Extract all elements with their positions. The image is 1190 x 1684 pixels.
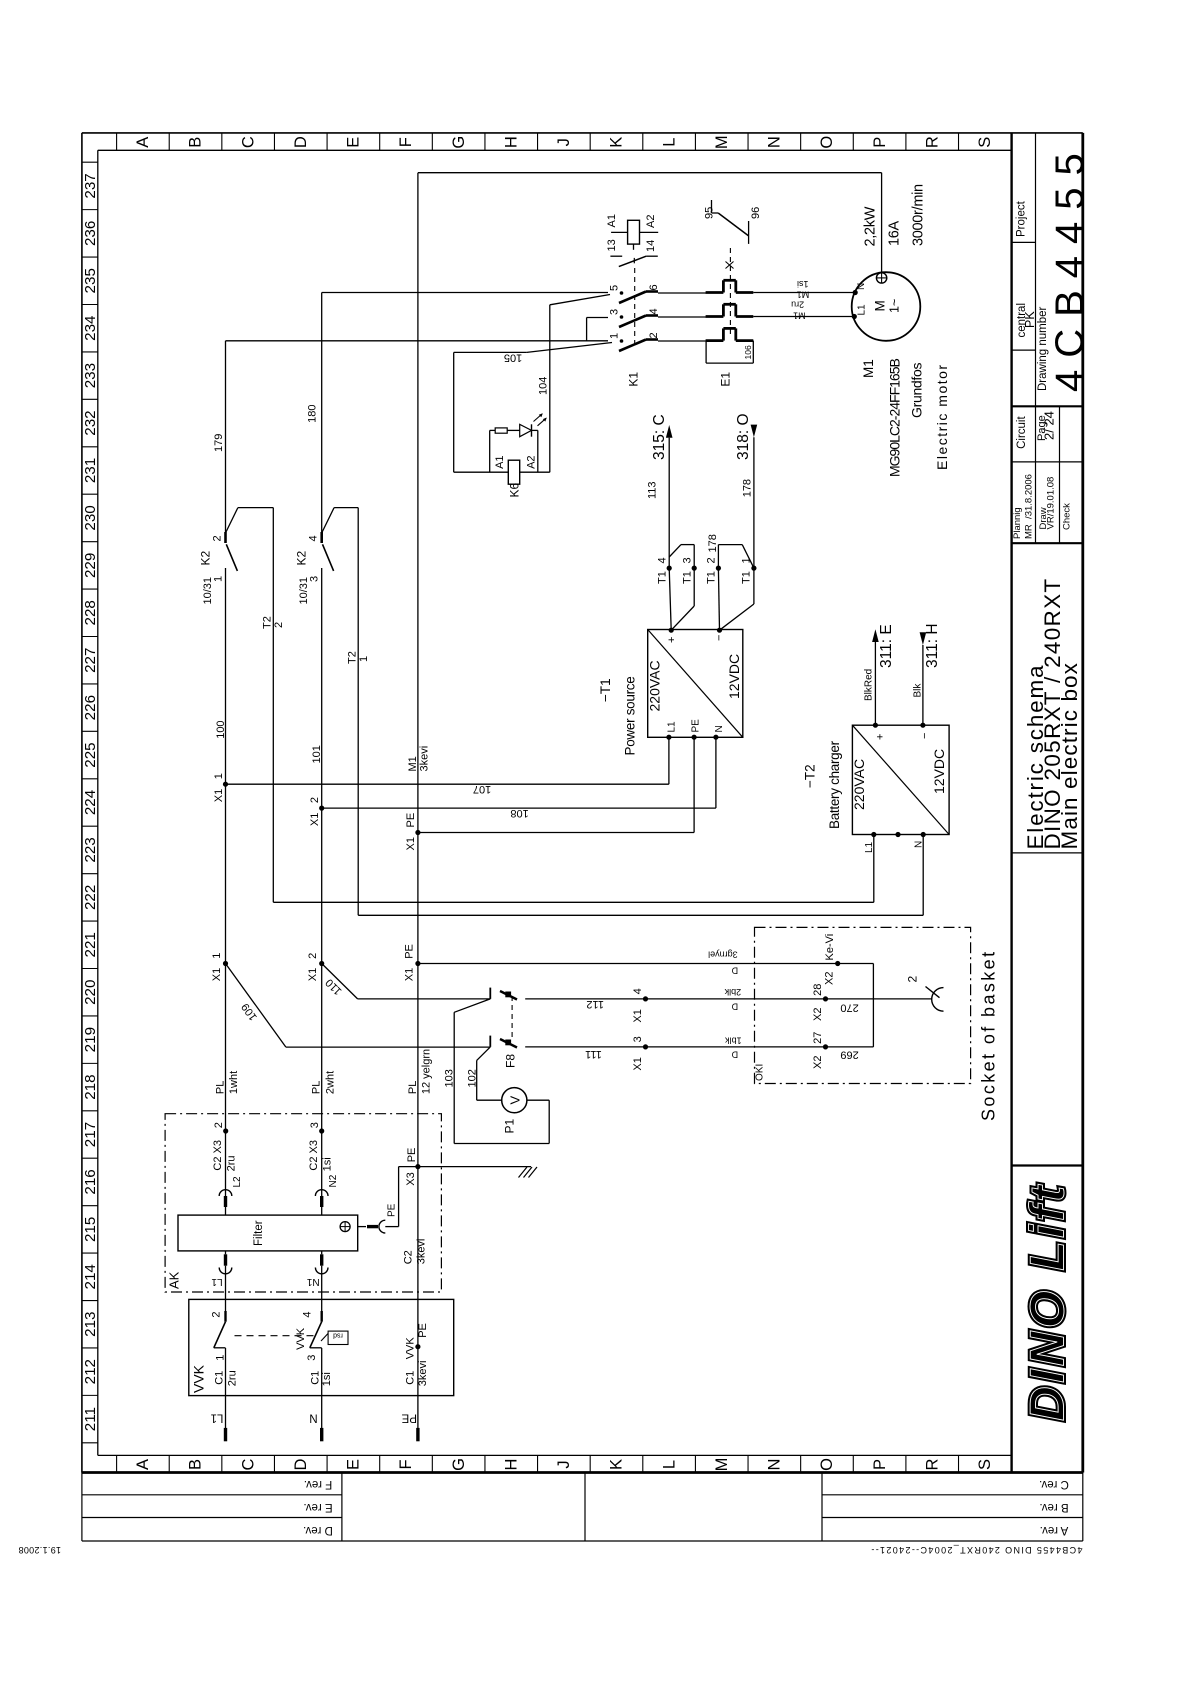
coil K1 <box>628 220 640 244</box>
svg-text:M: M <box>713 1458 731 1472</box>
earth (chassis) symbol <box>519 1167 528 1178</box>
switch contact VVK pole N <box>321 1311 323 1322</box>
svg-text:12VDC: 12VDC <box>931 749 947 794</box>
svg-text:Plannig: Plannig <box>1012 507 1023 539</box>
svg-text:VR/19.01.08: VR/19.01.08 <box>1045 477 1056 530</box>
svg-text:1: 1 <box>213 576 225 582</box>
svg-text:T1: T1 <box>741 571 753 584</box>
svg-text:2: 2 <box>706 557 718 563</box>
svg-text:Project: Project <box>1016 200 1028 237</box>
svg-text:D: D <box>292 136 310 148</box>
svg-text:L: L <box>660 138 678 147</box>
svg-text:K6: K6 <box>508 482 522 497</box>
svg-text:O: O <box>818 136 836 149</box>
wire 103 fuse-a to P1 loop <box>454 999 490 1012</box>
svg-text:T2: T2 <box>347 651 359 664</box>
earth symbol on motor <box>876 273 886 283</box>
svg-text:C rev.: C rev. <box>1039 1478 1069 1490</box>
svg-text:PK: PK <box>1023 311 1037 328</box>
svg-text:2: 2 <box>906 976 920 983</box>
svg-text:A: A <box>134 137 152 148</box>
terminal X2:28 <box>823 996 828 1001</box>
terminal X1:1 upper <box>223 782 228 787</box>
svg-text:100: 100 <box>215 720 227 738</box>
wire 104 vertical <box>549 305 551 472</box>
svg-text:235: 235 <box>82 268 99 293</box>
svg-text:T2: T2 <box>262 616 274 629</box>
wire filter PE to X3:PE <box>385 1226 398 1228</box>
svg-text:F: F <box>397 137 415 147</box>
svg-text:L: L <box>660 1460 678 1469</box>
T1 PE node <box>692 735 697 740</box>
svg-text:16A: 16A <box>887 220 903 246</box>
svg-text:PE: PE <box>405 813 417 828</box>
battery charger T2 <box>852 725 949 834</box>
svg-text:1: 1 <box>213 773 225 779</box>
svg-text:X1: X1 <box>309 813 321 826</box>
terminal T1:4 <box>667 566 672 571</box>
power source T1 <box>648 630 743 738</box>
motor M1 <box>852 272 921 341</box>
plug contact N2 <box>315 1190 328 1196</box>
svg-text:218: 218 <box>82 1074 99 1099</box>
svg-text:1: 1 <box>358 656 370 662</box>
svg-text:212: 212 <box>82 1359 99 1384</box>
svg-text:K2: K2 <box>199 550 213 565</box>
terminal X2 Ke-Vi <box>835 961 840 966</box>
wire X1PE to T1 <box>418 832 694 834</box>
svg-text:PE: PE <box>406 1148 418 1163</box>
terminal X1:1 lower <box>223 961 228 966</box>
svg-text:L1: L1 <box>667 721 678 733</box>
svg-text:220VAC: 220VAC <box>647 660 663 711</box>
LED arrows <box>534 414 543 422</box>
switch contact K2 pole B (N) <box>320 532 323 543</box>
svg-text:2ru: 2ru <box>791 299 804 309</box>
svg-text:Filter: Filter <box>253 1220 265 1246</box>
fuse switch F8 pole a (wire 110->112) <box>489 988 491 999</box>
svg-text:D: D <box>292 1458 310 1470</box>
svg-text:102: 102 <box>467 1069 479 1087</box>
svg-text:B: B <box>187 1459 205 1470</box>
svg-text:219: 219 <box>82 1027 99 1052</box>
terminal T1:2 <box>716 566 721 571</box>
svg-text:2wht: 2wht <box>324 1071 336 1094</box>
svg-text:Ke-Vi: Ke-Vi <box>824 934 836 961</box>
T2 wires down to T2-wires <box>873 835 875 903</box>
wire 104 from K1 pole5 to K6 <box>550 295 610 305</box>
wire T2-1 from K2b to battery charger <box>357 508 359 916</box>
wire 110 <box>322 964 358 999</box>
wire N end tick <box>320 1428 323 1441</box>
T1 + to terminals T1:4 T1:3 <box>669 568 671 630</box>
svg-text:A: A <box>134 1459 152 1470</box>
svg-text:231: 231 <box>82 458 99 483</box>
svg-text:A rev.: A rev. <box>1040 1524 1069 1536</box>
svg-text:Battery charger: Battery charger <box>827 740 842 829</box>
wire 105 from K1 pole1 to K6 <box>527 343 612 353</box>
svg-text:PE: PE <box>403 944 415 959</box>
svg-text:2,2kW: 2,2kW <box>863 206 879 246</box>
svg-text:237: 237 <box>82 173 99 198</box>
svg-text:104: 104 <box>538 377 550 395</box>
svg-text:3kevi: 3kevi <box>416 1239 428 1265</box>
svg-text:Socket of basket: Socket of basket <box>979 950 999 1121</box>
svg-text:R: R <box>923 136 941 148</box>
K1 dashed link <box>634 268 636 345</box>
enclosure OKI (socket of basket) <box>755 927 971 1083</box>
T1 + node <box>669 628 674 633</box>
contact K1 pole 1-2 <box>620 339 624 343</box>
svg-text:+: + <box>875 734 887 740</box>
fuse switch F8 pole b (wire 109->111) <box>489 1036 491 1047</box>
svg-text:X1: X1 <box>632 1009 644 1022</box>
svg-text:L1: L1 <box>211 1412 224 1424</box>
wire L1 rail upper (179) <box>225 341 227 532</box>
svg-text:2blk: 2blk <box>724 987 741 997</box>
svg-text:D: D <box>731 966 738 976</box>
sheet outer frame <box>82 132 1083 134</box>
svg-text:PE: PE <box>401 1412 417 1424</box>
wire 109 <box>226 964 286 1048</box>
svg-text:G: G <box>450 1458 468 1471</box>
off-page arrow 311:E <box>874 642 876 725</box>
voltmeter P1 <box>502 1088 527 1113</box>
svg-text:1si: 1si <box>322 1157 334 1171</box>
wires E1 to motor <box>753 292 855 294</box>
svg-text:J: J <box>555 138 573 146</box>
svg-text:2/ 24: 2/ 24 <box>1042 411 1057 440</box>
svg-text:VVK: VVK <box>191 1364 207 1393</box>
svg-text:1si: 1si <box>321 1372 333 1386</box>
svg-text:A2: A2 <box>526 455 538 468</box>
off-page arrow 311:H <box>922 645 924 725</box>
inner drawing frame <box>98 149 1012 151</box>
terminal X1:2 lower <box>319 961 324 966</box>
svg-text:2: 2 <box>273 622 285 628</box>
svg-text:4: 4 <box>632 988 644 994</box>
svg-text:1~: 1~ <box>888 299 902 313</box>
aux contact K1 13-14 <box>610 255 622 257</box>
svg-text:3grnyel: 3grnyel <box>708 950 738 960</box>
svg-text:12VDC: 12VDC <box>726 654 742 699</box>
svg-text:N2: N2 <box>328 1174 339 1187</box>
T1 jumper 1-2 + wire 178 tag <box>717 545 719 569</box>
svg-text:MR /31.8.2006: MR /31.8.2006 <box>1024 474 1035 539</box>
svg-text:D rev.: D rev. <box>303 1524 333 1536</box>
resistor in K6 <box>495 428 507 433</box>
svg-text:180: 180 <box>306 405 318 423</box>
svg-text:223: 223 <box>82 837 99 862</box>
terminal X1:PE upper <box>415 830 420 835</box>
svg-text:B rev.: B rev. <box>1039 1501 1068 1513</box>
svg-text:C2 X3: C2 X3 <box>212 1140 224 1171</box>
svg-text:234: 234 <box>82 316 99 341</box>
svg-text:E1: E1 <box>719 372 733 387</box>
svg-text:K: K <box>608 137 626 148</box>
off-page arrow 315:C wire 113 <box>668 438 670 568</box>
svg-text:R: R <box>923 1458 941 1470</box>
svg-text:103: 103 <box>444 1069 456 1087</box>
T2 + node <box>873 723 878 728</box>
LED D (K6) <box>520 424 532 436</box>
svg-text:L1: L1 <box>211 1276 223 1287</box>
svg-text:2: 2 <box>213 1122 225 1128</box>
wire 107 <box>226 783 669 785</box>
svg-text:rsd: rsd <box>333 1332 343 1339</box>
svg-text:H: H <box>502 136 520 148</box>
off-page arrow 318:O wire 178 <box>753 437 755 568</box>
contact K1 pole 5-6 <box>620 291 624 295</box>
svg-text:X1: X1 <box>213 789 225 802</box>
row number band left <box>82 161 98 163</box>
filter PE plug <box>358 1226 366 1228</box>
overload relay E1 <box>706 291 724 294</box>
svg-text:M1: M1 <box>793 311 806 321</box>
wire to X2 27 <box>646 1046 874 1048</box>
E1 box with 106 <box>705 341 707 364</box>
T1 L1 node <box>666 735 671 740</box>
svg-text:3000r/min: 3000r/min <box>911 184 927 246</box>
svg-text:Electric motor: Electric motor <box>934 363 950 470</box>
svg-text:2: 2 <box>309 797 321 803</box>
svg-text:221: 221 <box>82 932 99 957</box>
svg-text:C1: C1 <box>310 1371 322 1385</box>
svg-text:C1: C1 <box>214 1371 226 1385</box>
svg-text:BlkRed: BlkRed <box>864 669 875 701</box>
svg-text:111: 111 <box>585 1048 602 1060</box>
svg-text:2: 2 <box>307 953 319 959</box>
svg-text:K2: K2 <box>295 550 309 565</box>
svg-text:1blk: 1blk <box>725 1036 742 1046</box>
svg-text:OKI: OKI <box>755 1064 766 1081</box>
svg-text:1: 1 <box>215 1355 227 1361</box>
terminal T1:1 <box>751 566 756 571</box>
terminal T1:3 <box>692 566 697 571</box>
wire N rail <box>321 568 323 1196</box>
svg-text:PE: PE <box>387 1203 398 1217</box>
svg-text:F8: F8 <box>504 1054 518 1068</box>
svg-text:O: O <box>818 1458 836 1471</box>
svg-text:S: S <box>976 1459 994 1470</box>
svg-text:T1: T1 <box>682 571 694 584</box>
svg-text:2: 2 <box>648 332 660 338</box>
svg-text:311: E: 311: E <box>878 624 895 668</box>
terminal X1:PE lower <box>415 961 420 966</box>
wire 105 vertical <box>453 352 455 472</box>
svg-text:F rev.: F rev. <box>304 1478 333 1490</box>
svg-text:108: 108 <box>510 807 528 819</box>
svg-text:3: 3 <box>682 557 694 563</box>
svg-text:Circuit: Circuit <box>1016 416 1028 449</box>
svg-text:DINO Lift: DINO Lift <box>1022 1182 1075 1421</box>
svg-text:PE: PE <box>417 1323 429 1338</box>
svg-text:Main electric box: Main electric box <box>1057 662 1082 850</box>
svg-text:220VAC: 220VAC <box>851 759 867 810</box>
svg-text:28: 28 <box>812 984 824 996</box>
column letter band top <box>116 133 118 150</box>
svg-text:6: 6 <box>648 284 660 290</box>
svg-text:12 yelgrn: 12 yelgrn <box>421 1049 433 1094</box>
terminal X1:4 <box>643 996 648 1001</box>
T1 N node <box>713 735 718 740</box>
svg-text:A1: A1 <box>494 455 506 468</box>
plug contact L1 (filter bottom) <box>224 1254 227 1265</box>
svg-text:224: 224 <box>82 790 99 815</box>
svg-text:E: E <box>345 1459 363 1470</box>
terminal X3:2 <box>223 1128 228 1133</box>
contact K1 pole 3-4 <box>620 315 624 319</box>
svg-text:229: 229 <box>82 553 99 578</box>
svg-text:2ru: 2ru <box>227 1370 239 1386</box>
svg-text:27: 27 <box>812 1032 824 1044</box>
svg-text:VVK: VVK <box>295 1327 307 1350</box>
svg-text:211: 211 <box>82 1407 99 1431</box>
T2 N node <box>921 832 926 837</box>
svg-text:X1: X1 <box>307 968 319 981</box>
jumper pole1-pole3 <box>586 318 588 341</box>
wire PE top to motor earth <box>418 172 882 174</box>
wire T2-2 from K2a to battery charger <box>272 508 274 903</box>
T2 mid node <box>895 832 900 837</box>
plug contact N1 (filter bottom) <box>320 1254 323 1265</box>
wire X1PE to X2 Ke-Vi (3grnyel) <box>418 963 838 965</box>
svg-text:179: 179 <box>213 434 225 452</box>
svg-text:107: 107 <box>473 783 491 795</box>
svg-text:V: V <box>508 1096 523 1105</box>
svg-text:AK: AK <box>167 1271 182 1289</box>
svg-text:4: 4 <box>302 1311 314 1317</box>
svg-text:N: N <box>856 283 867 290</box>
svg-text:2: 2 <box>212 535 224 541</box>
terminal X1:2 upper <box>319 806 324 811</box>
svg-text:225: 225 <box>82 742 99 767</box>
socket contact 2 <box>932 988 944 1012</box>
svg-text:N: N <box>766 1459 784 1471</box>
svg-text:M1: M1 <box>797 290 810 300</box>
svg-text:318: O: 318: O <box>735 413 752 460</box>
K6 inner loop <box>489 430 491 472</box>
svg-text:M: M <box>713 135 731 149</box>
svg-text:4: 4 <box>648 308 660 314</box>
svg-text:1: 1 <box>211 953 223 959</box>
svg-text:19.1.2008: 19.1.2008 <box>18 1545 61 1555</box>
arrow up 315:C <box>666 425 673 438</box>
svg-text:227: 227 <box>82 648 99 673</box>
svg-text:3: 3 <box>309 576 321 582</box>
svg-text:X2: X2 <box>812 1056 824 1069</box>
X2 KeVi link down to X2 27 <box>838 963 874 965</box>
T2 L1 node <box>871 832 876 837</box>
svg-text:−: − <box>919 733 931 739</box>
svg-text:215: 215 <box>82 1217 99 1242</box>
svg-text:105: 105 <box>504 352 522 364</box>
svg-text:Check: Check <box>1062 503 1073 530</box>
enclosure AK <box>165 1114 441 1292</box>
svg-text:P: P <box>871 1459 889 1470</box>
T1 - to terminals T1:2 T1:1 <box>718 568 719 630</box>
switch contact K2 13-14 pole A (L1) <box>224 532 227 543</box>
svg-text:232: 232 <box>82 410 99 435</box>
svg-text:315: C: 315: C <box>651 414 668 460</box>
terminal X3:PE <box>415 1164 420 1169</box>
wire to socket pin 2 <box>646 998 933 1000</box>
svg-text:214: 214 <box>82 1264 99 1289</box>
svg-text:Grundfos: Grundfos <box>909 363 925 418</box>
svg-text:X2: X2 <box>824 972 836 985</box>
svg-text:N: N <box>766 136 784 148</box>
svg-text:4: 4 <box>308 535 320 541</box>
svg-text:X1: X1 <box>405 837 417 850</box>
DINO Lift logo <box>1022 1182 1075 1421</box>
svg-text:T1: T1 <box>706 571 718 584</box>
filter box <box>178 1215 358 1251</box>
svg-text:C: C <box>239 136 257 148</box>
terminal VVK PE <box>415 1344 420 1349</box>
svg-text:N: N <box>309 1412 317 1424</box>
terminal X1:3 <box>643 1044 648 1049</box>
svg-text:233: 233 <box>82 363 99 388</box>
svg-text:PL: PL <box>215 1081 227 1094</box>
svg-text:F: F <box>397 1459 415 1469</box>
wire L1 rail <box>225 568 227 1196</box>
svg-text:3: 3 <box>306 1355 318 1361</box>
svg-text:213: 213 <box>82 1312 99 1337</box>
wire 179 top (105) to K1 pole 1 <box>226 340 609 342</box>
svg-text:112: 112 <box>586 998 604 1010</box>
svg-text:J: J <box>555 1460 573 1468</box>
svg-text:M: M <box>873 300 888 311</box>
svg-text:−T1: −T1 <box>598 678 613 702</box>
svg-text:3: 3 <box>609 309 621 315</box>
thermal release symbol <box>726 262 734 269</box>
svg-text:270: 270 <box>840 1001 858 1013</box>
svg-text:C1: C1 <box>405 1371 417 1385</box>
svg-text:13: 13 <box>606 239 618 251</box>
svg-text:VVK: VVK <box>405 1337 417 1360</box>
VVK dashed link + rsd box <box>235 1335 317 1337</box>
svg-text:M1: M1 <box>407 756 419 771</box>
svg-text:3kevi: 3kevi <box>419 746 431 772</box>
svg-text:L2: L2 <box>232 1176 243 1188</box>
T1 jumper 3-4 <box>693 545 695 569</box>
svg-text:3: 3 <box>632 1036 644 1042</box>
wire PE rail <box>417 173 419 1428</box>
earth symbol in filter <box>340 1222 350 1232</box>
svg-text:X1: X1 <box>632 1057 644 1070</box>
arrow up 311:E <box>872 629 879 642</box>
coil K6 <box>508 460 519 484</box>
svg-text:K: K <box>608 1459 626 1470</box>
T2 - node <box>920 723 925 728</box>
svg-text:4CB4455 DINO 240RXT_2004C--240: 4CB4455 DINO 240RXT_2004C--24021-- <box>870 1545 1083 1555</box>
wire L1 end tick <box>224 1428 227 1441</box>
svg-text:178: 178 <box>742 479 754 497</box>
svg-text:Power source: Power source <box>623 677 638 756</box>
svg-text:X1: X1 <box>403 968 415 981</box>
wire 102 fuse-b to P1 <box>477 1047 491 1061</box>
svg-text:H: H <box>502 1459 520 1471</box>
svg-text:B: B <box>187 137 205 148</box>
svg-text:X1: X1 <box>211 968 223 981</box>
svg-text:A2: A2 <box>645 215 657 228</box>
switch contact VVK pole L1 <box>224 1311 226 1322</box>
svg-text:N: N <box>714 725 725 732</box>
wire 180 top to K1 pole 5 <box>322 292 608 294</box>
svg-text:N1: N1 <box>306 1276 319 1287</box>
E1 dashed link <box>729 248 731 334</box>
svg-text:2: 2 <box>211 1311 223 1317</box>
